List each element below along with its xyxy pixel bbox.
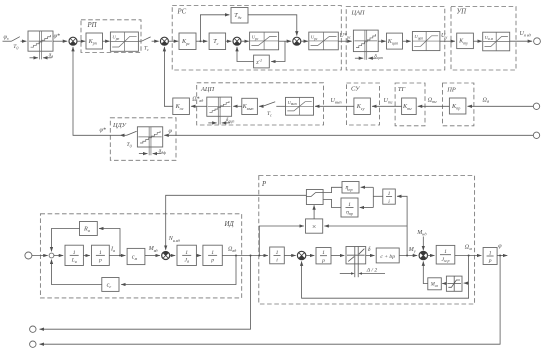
sum junction 2 (speed loop input) [160,37,168,45]
svg-text:1: 1 [322,250,325,256]
wire TsDU to sum1 vertical [73,47,120,135]
svg-text:р: р [98,258,102,264]
block 1/J_d [177,245,196,265]
wire Q2 to K_tsap [378,40,386,42]
wire sum3b to sat U_rs2 [301,40,308,42]
block K_pr [449,98,466,114]
svg-text:Ωвд: Ωвд [228,246,236,253]
sum junction 5 (twist speed) [297,251,305,259]
relay block (signum of speed) [446,276,462,291]
svg-text:р: р [210,258,214,264]
switch T0 (input sampler) [12,37,20,42]
svg-text:Ω*вд: Ω*вд [192,97,203,104]
block T_ds (feedforward) [231,8,248,24]
wire K_tsap to sat U_tsap [403,40,411,42]
svg-text:1: 1 [489,250,492,256]
quantizer Q1 (input quantizer) [28,31,53,59]
dimension marks Delta/2 [340,272,385,275]
wire M_u to multiplier right [324,225,407,227]
junction dot Omega_m branch [468,255,470,257]
svg-text:1: 1 [348,202,351,208]
wire to 1/eta [360,207,374,209]
switch Tc ADC sampler [263,102,275,107]
block K_tu [457,33,474,49]
wire K_su to sat U_vyp [315,105,354,107]
wire K_rp to sat U_rp [103,40,110,42]
svg-text:Тс: Тс [267,111,272,118]
wire tap to c_e [121,256,236,285]
junction dot after K_rs [199,40,201,42]
sum junction 3b (PI output) [293,37,301,45]
saturation U_ya limiter [483,32,510,51]
svg-text:Δ / 2: Δ / 2 [366,267,378,273]
svg-text:δд: δд [49,52,54,59]
svg-text:1: 1 [211,250,214,256]
sum junction 6 (load torque) [419,251,427,259]
block 1/p armature [92,245,110,265]
box ID (motor) [40,214,241,298]
svg-text:ТГ: ТГ [398,86,406,93]
block 1/p motor speed [203,245,222,265]
svg-text:Nн.вд: Nн.вд [168,236,180,243]
svg-text:р: р [321,258,325,264]
wire c_e to node bottom [52,260,102,285]
wire Omega_vd to terminal1 [40,256,251,330]
sum junction 1 (position error) [69,37,77,45]
svg-text:Т0: Т0 [127,142,132,149]
svg-text:δдф: δдф [159,148,167,155]
block K_rp [86,33,103,49]
wire switch to sum2 [152,40,159,42]
svg-text:Uвып: Uвып [331,98,342,105]
box RP (position regulator) [81,20,141,53]
wire Q1 to sum1 [53,40,67,42]
svg-text:РП: РП [87,22,98,29]
svg-text:×: × [311,222,316,231]
svg-text:РС: РС [177,9,187,16]
box TsAP (DAC) [346,7,445,71]
wire sum1 to K_rp [77,40,85,42]
summing node armature circuit [49,253,54,258]
terminal U_ya vd (top right) [534,38,541,45]
svg-text:АЦП: АЦП [200,86,215,93]
wire eta_pr to switch [323,187,342,192]
deadzone block (backlash) [346,247,366,278]
wire Omega_m to sum5 bottom [302,261,469,298]
wire Omega_vd main [222,255,268,257]
wire phi output arrow [497,255,507,257]
wire 1/L to 1/p [83,255,89,257]
box PR (receiver) [443,83,474,126]
wire into quantizer Q1 [21,40,27,42]
block M_sv (dry friction torque) [428,278,442,290]
sum junction 4 (motor torque) [162,251,170,259]
block 1/L_ya [65,245,83,265]
wire sat to ADC switch [276,105,285,107]
wire phi to Q4 [164,134,533,136]
block z^-1 (delay) [254,55,270,68]
wire 1/eta to switch [323,199,341,207]
saturation U_rp limiter [110,32,138,51]
junction dot I_ya [119,255,121,257]
block R_ya [80,222,98,236]
svg-text:Ωд: Ωд [483,98,489,105]
svg-text:ЦДУ: ЦДУ [112,122,127,129]
terminal U_ya input (left) [25,252,32,259]
svg-text:φ*: φ* [100,127,106,133]
quantizer Q4 (angle quantizer) [137,127,162,155]
box UP (power converter) [451,7,516,71]
wire sum3a to sat U_rs1 [241,40,249,42]
wire c+bp to sum6 [399,255,417,257]
svg-text:Iя: Iя [110,246,115,253]
wire branch up to T_ds [200,15,229,41]
block c_e (EMF) [102,278,119,292]
svg-text:СУ: СУ [351,86,360,93]
switch Tc after RP [142,37,151,41]
wire node to 1/L [54,255,63,257]
svg-text:Му: Му [408,247,416,254]
block K_os (speed feedback) [173,98,190,115]
block 1/p output angle [483,248,497,265]
svg-text:Мсв: Мсв [430,283,439,288]
box TG (tachogenerator) [395,83,425,126]
svg-text:1: 1 [276,250,279,256]
wire 1/i to sum5 [284,255,295,257]
svg-text:ЦАП: ЦАП [351,10,365,17]
wire M_nd arrow [422,237,424,251]
wire Omega_m down to relay [464,256,469,284]
box RS (speed regulator) [172,6,341,71]
saturation U_vyp limiter [286,97,314,115]
svg-text:Uтг: Uтг [384,98,393,105]
switch block (efficiency selector) [306,190,323,205]
terminal Omega_d (right) [533,103,539,109]
wire phi_z lead [3,40,12,42]
wire sum6 to 1/Jm p [428,255,435,257]
wire T_s to sum3a [226,40,232,42]
wire T_ds to sum3b top [248,15,297,36]
svg-text:1: 1 [185,250,188,256]
wire eta vertical [372,187,374,207]
wire deadzone to c+bp [366,255,375,257]
svg-text:1: 1 [99,250,102,256]
saturation U_tsap limiter [412,32,440,51]
svg-text:с + bp: с + bp [380,254,395,260]
wire RS out to Q2 [338,40,351,42]
svg-text:φ*: φ* [54,33,60,39]
block 1/i input [270,247,285,264]
box TsDU (digital angle sensor) [110,118,176,161]
wire input to node [32,255,48,257]
svg-text:δацп: δацп [226,117,235,124]
svg-text:Uу: Uу [441,33,447,40]
wire K_pr to K_tg [418,105,450,107]
wire K_vyp to Q3 [233,105,242,107]
wire c_m to sum4 [145,255,160,257]
junction dot Omega_vd terminal tap [250,255,252,257]
saturation U_rs output limiter [309,32,339,50]
wire K_rs to T_s with branch node [196,40,207,42]
wire M_u up to 1/i3 [397,196,407,255]
wire K_os to sum2 bottom [164,47,172,106]
wire K_tu to sat U_ya [473,40,482,42]
wire sum2 to K_rs [168,40,178,42]
wire Q3 to K_os [191,105,207,107]
svg-text:Р: Р [261,181,266,188]
block c_m [127,248,145,264]
wire Omega_d to K_pr [468,105,534,107]
block 1/p twist angle [316,248,331,264]
quantizer Q2 (DAC quantizer) [353,30,378,60]
block c+bp (spring-damper) [376,248,399,263]
box R (reducer) [259,176,475,305]
wire relay to M_sv [442,283,446,285]
svg-text:р: р [488,258,492,264]
svg-text:Тс: Тс [144,45,149,52]
terminal phi out (bottom left) [30,341,36,347]
block K_vyp [242,98,258,114]
box ATsP (ADC) [197,83,324,125]
svg-text:Мнд: Мнд [416,230,426,237]
block K_su [354,98,371,115]
wire sum4 to 1/J_d [170,255,176,257]
svg-text:Uя вд: Uя вд [520,31,531,38]
wire to K_tu [440,40,455,42]
wire sum5 to 1/p twist [306,255,315,257]
wire branch up to R_ya [99,229,120,256]
wire Omega_vd to multiplier [259,226,304,256]
svg-text:Ωм: Ωм [465,245,472,252]
wire to output terminal U_ya [510,40,532,42]
box SU (matching device) [347,83,380,125]
junction dot c_e tap [235,255,237,257]
wire 1/i3 to eta split [373,195,383,197]
svg-text:φз: φз [4,35,9,42]
junction dot M_u branch [406,255,408,257]
switch T0 TsDU sampler [127,131,137,135]
junction dot phi branch [499,255,501,257]
block K_tsap [387,33,403,49]
sum junction 3a (digital integrator) [233,37,241,45]
block K_tg [402,98,417,115]
wire branch down to z-1 [271,41,285,61]
svg-text:Ωтг: Ωтг [428,98,437,105]
svg-text:Мвд: Мвд [148,246,158,253]
block K_rs [179,33,196,50]
wire 1/J_d to 1/p2 [196,255,201,257]
quantizer Q3 (ADC quantizer) [207,97,232,124]
svg-text:U*рс: U*рс [340,33,351,40]
wire TsDU out to sum1 bottom [120,134,127,136]
wire multiplier out to switch [313,205,315,219]
wire 1/p to c_m [109,255,125,257]
multiplier block x [306,219,323,233]
svg-text:δ: δ [368,247,371,253]
wire sat to sum3b [279,40,291,42]
terminal Omega_vd out (bottom left) [30,326,36,332]
wire R_ya to node top [52,229,80,252]
wire K_tg to K_su [372,105,402,107]
svg-text:Т0: Т0 [13,44,18,51]
svg-text:ηпр: ηпр [345,185,352,192]
wire phi down to terminal2 [40,256,501,345]
block T_s [209,33,226,50]
saturation U_rs integrator limiter [250,32,279,50]
wire Omega_m to 1/p out [455,255,482,257]
wire switch to K_vyp [259,105,263,107]
junction dot Omega_vd branch [258,255,260,257]
wire to eta_pr [361,186,374,188]
svg-text:1: 1 [73,250,76,256]
svg-text:δцап: δцап [374,53,383,60]
svg-text:УП: УП [457,9,468,16]
svg-text:1: 1 [388,191,391,197]
svg-text:1: 1 [444,249,447,255]
block 1/(J_m p) [436,245,455,264]
wire M_sv to sum6 bottom [423,261,428,283]
terminal phi (right) [533,132,539,138]
wire RP box to switch [138,40,141,42]
wire 1/p to deadzone [331,255,344,257]
svg-text:ПР: ПР [446,87,456,94]
block 1/i reflected [383,189,396,205]
block 1/eta_pr [341,198,358,217]
wire switch out to sum4 top [166,195,307,250]
wire z-1 to sum3a bottom [237,47,254,62]
svg-text:ИД: ИД [224,221,235,228]
block eta_pr (forward efficiency) [342,182,359,194]
